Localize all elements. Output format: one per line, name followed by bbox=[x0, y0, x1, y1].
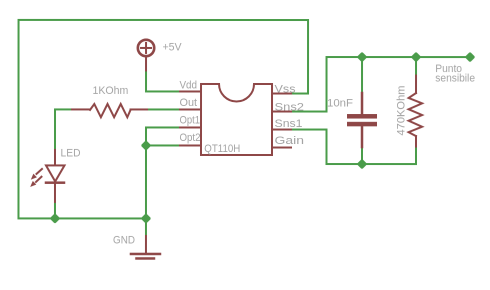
pin Vss stub bbox=[272, 93, 291, 95]
wire Sns1 to bottom sense rail bbox=[291, 130, 416, 165]
wire R2 bottom bbox=[415, 147, 417, 165]
svg-text:GND: GND bbox=[113, 234, 135, 246]
pin Opt2 stub bbox=[180, 144, 201, 146]
resistor R1 1KOhm bbox=[72, 104, 147, 117]
pin Sns2 stub bbox=[272, 111, 291, 113]
svg-text:Out: Out bbox=[180, 97, 198, 109]
pin Gain stub bbox=[272, 147, 291, 149]
wire Out pin to R1 bbox=[147, 108, 180, 110]
wire Opt tie to GND rail bbox=[145, 145, 147, 218]
svg-text:+5V: +5V bbox=[163, 41, 183, 53]
svg-text:Opt1: Opt1 bbox=[180, 114, 201, 126]
svg-text:QT110H: QT110H bbox=[204, 143, 240, 155]
pin Out stub bbox=[180, 108, 201, 110]
ground symbol bbox=[131, 236, 160, 259]
wire C1 bottom bbox=[361, 147, 363, 164]
capacitor C1 10nF bbox=[347, 93, 377, 147]
svg-text:1KOhm: 1KOhm bbox=[93, 85, 129, 97]
svg-text:Gain: Gain bbox=[274, 135, 304, 147]
wire top border (Vss to +rail loop) bbox=[19, 19, 309, 21]
wire bottom ground rail bbox=[18, 217, 147, 219]
junction LED / ground rail bbox=[50, 214, 59, 223]
svg-text:Vdd: Vdd bbox=[180, 79, 198, 91]
wire left border bbox=[17, 20, 19, 218]
LED emission arrow 1 bbox=[31, 169, 42, 180]
svg-text:Sns2: Sns2 bbox=[275, 102, 305, 114]
pin Sns1 stub bbox=[272, 129, 291, 131]
LED bbox=[30, 150, 64, 202]
wire R2 top bbox=[415, 57, 417, 75]
svg-text:Opt2: Opt2 bbox=[180, 132, 201, 144]
node Punto sensibile endpoint bbox=[465, 52, 474, 61]
LED emission arrow 2 bbox=[30, 177, 41, 187]
svg-text:Sns1: Sns1 bbox=[275, 118, 303, 130]
junction C1 bottom bbox=[357, 159, 366, 168]
wire C1 top bbox=[361, 57, 363, 93]
svg-text:470KOhm: 470KOhm bbox=[396, 86, 408, 136]
junction C1 top / sense rail bbox=[357, 52, 366, 61]
wire Vss riser bbox=[291, 20, 308, 94]
junction Opt1/Opt2 tie bbox=[141, 141, 150, 150]
svg-text:LED: LED bbox=[60, 147, 80, 159]
IC U1 QT110H body bbox=[201, 84, 272, 155]
junction R2 top / sense rail bbox=[411, 52, 420, 61]
svg-text:sensibile: sensibile bbox=[435, 73, 475, 85]
resistor R2 470KOhm bbox=[409, 76, 423, 147]
wire LED bottom bbox=[54, 202, 56, 219]
wire GND stub bbox=[145, 218, 147, 236]
pin Vdd stub bbox=[180, 90, 201, 92]
junction GND rail bbox=[141, 214, 150, 223]
svg-text:10nF: 10nF bbox=[327, 98, 353, 110]
wire +5V to Vdd bbox=[146, 70, 180, 91]
wire Opt2 bbox=[146, 144, 180, 146]
supply +5V symbol bbox=[138, 40, 154, 71]
svg-text:Vss: Vss bbox=[275, 84, 297, 96]
wire R1 to LED top bbox=[55, 109, 72, 150]
wire Sns2 to sense rail bbox=[291, 57, 470, 112]
pin Opt1 stub bbox=[180, 126, 201, 128]
wire Opt1 bbox=[146, 127, 180, 145]
